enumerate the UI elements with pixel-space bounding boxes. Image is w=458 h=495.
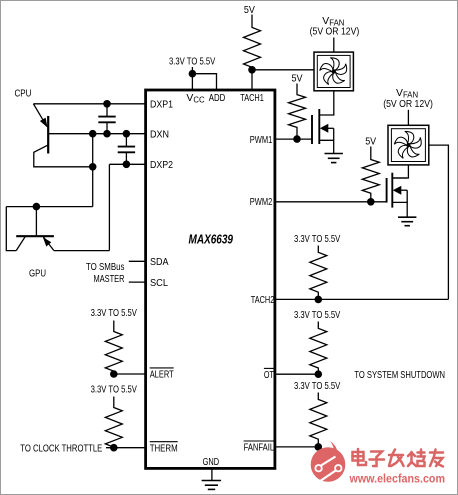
svg-text:GND: GND — [203, 457, 220, 468]
transistor Q4 body arrow — [393, 186, 407, 203]
node junction DXN/C1 — [103, 130, 111, 138]
svg-text:TO SYSTEM SHUTDOWN: TO SYSTEM SHUTDOWN — [354, 370, 445, 381]
svg-text:DXP1: DXP1 — [150, 100, 173, 111]
svg-text:DXN: DXN — [150, 130, 169, 141]
pin label OT (overline) — [264, 368, 274, 381]
capacitor C2 leads — [125, 134, 127, 165]
pin label ALERT (overline) — [150, 368, 174, 381]
transistor Q3 channel bar — [318, 109, 320, 144]
node junction DXP2/C2 — [123, 161, 131, 169]
node junction PWM2 — [367, 198, 375, 206]
transistor Q2 base stub — [35, 207, 37, 237]
wire PWM1 — [275, 138, 312, 140]
char fa — [389, 454, 403, 457]
svg-text:3.3V TO 5.5V: 3.3V TO 5.5V — [91, 385, 137, 396]
fan B1 box — [314, 52, 353, 91]
fan B2 box — [388, 125, 429, 165]
transistor Q4 drain stub — [392, 177, 407, 179]
svg-text:FANFAIL: FANFAIL — [244, 443, 275, 454]
wire TACH1 pin — [251, 70, 253, 90]
wire GPU top horizontal — [6, 206, 92, 208]
wire ADD tie to VCC — [192, 74, 216, 90]
svg-text:ADD: ADD — [209, 93, 226, 104]
wire fan1 to Q3 drain — [319, 91, 334, 115]
node junction ALERT — [110, 370, 118, 378]
node junction collector/DXN drop — [89, 163, 97, 171]
wire GPU emitter rise to DXP2 — [108, 164, 110, 250]
wire DXP1 — [33, 103, 145, 105]
node junction OT — [315, 370, 323, 378]
resistor R PWM1 pull-up — [289, 84, 306, 140]
svg-text:TO CLOCK THROTTLE: TO CLOCK THROTTLE — [20, 444, 102, 455]
resistor R TACH1 pull-up — [244, 15, 261, 70]
svg-text:SCL: SCL — [150, 278, 168, 289]
transistor Q1 CPU sense: emitter diagonal with arrow — [33, 104, 47, 128]
svg-text:TO SMBus: TO SMBus — [86, 262, 125, 273]
svg-text:3.3V TO 5.5V: 3.3V TO 5.5V — [294, 310, 340, 321]
watermark text dianzifashaoyou — [353, 449, 444, 467]
wire fan2 supply lead — [407, 110, 409, 126]
wire PWM2 — [275, 201, 387, 203]
resistor R ALERT pull-up — [105, 321, 122, 375]
svg-text:5V: 5V — [292, 74, 303, 85]
wire fan1 supply lead — [333, 38, 335, 53]
svg-text:OT: OT — [264, 370, 274, 381]
transistor Q3 MOSFET gate bar — [311, 115, 313, 144]
ground (Q3 source) — [325, 154, 343, 163]
wire DXN (Q1 base to pin) — [48, 133, 145, 135]
transistor Q4 channel bar — [391, 173, 393, 208]
wire SCL — [129, 281, 146, 283]
capacitor C2 plates — [118, 147, 135, 153]
label TO SMBus MASTER — [86, 262, 125, 285]
svg-text:SDA: SDA — [150, 257, 169, 268]
wire GPU left drop — [6, 207, 16, 251]
svg-text:TACH2: TACH2 — [251, 295, 275, 306]
svg-text:GPU: GPU — [29, 269, 46, 280]
svg-text:MASTER: MASTER — [94, 274, 125, 285]
char dian — [353, 452, 364, 461]
node junction THERM — [110, 444, 118, 452]
svg-text:3.3V TO 5.5V: 3.3V TO 5.5V — [169, 56, 215, 67]
svg-text:TACH1: TACH1 — [240, 93, 264, 104]
wire TACH1 to FAN1 — [252, 69, 315, 71]
wire TACH2 — [275, 298, 449, 300]
char shao — [410, 452, 413, 462]
wire GPU emitter horizontal — [54, 250, 110, 252]
svg-text:3.3V TO 5.5V: 3.3V TO 5.5V — [294, 381, 340, 392]
svg-text:CPU: CPU — [15, 89, 32, 100]
node junction DXP1/C1 — [103, 100, 111, 108]
transistor Q3 source — [319, 140, 333, 153]
wire fan2 to Q4 drain — [392, 165, 408, 178]
transistor Q2 base bar — [16, 235, 54, 237]
transistor Q1 collector diagonal — [34, 145, 93, 167]
transistor Q3 body arrow — [320, 124, 334, 141]
node junction DXN/C2 — [123, 130, 131, 138]
op-amp U1 MAX6639 IC body — [146, 90, 275, 468]
resistor R FANFAIL pull-up — [310, 393, 327, 447]
wire VCC supply — [191, 67, 193, 90]
resistor R TACH2 pull-up — [310, 246, 327, 300]
ground (GND pin) — [202, 481, 222, 490]
svg-text:www.elecfans.com: www.elecfans.com — [349, 472, 445, 486]
wire GND pin — [211, 469, 213, 481]
svg-text:THERM: THERM — [150, 443, 178, 454]
svg-text:PWM1: PWM1 — [250, 135, 273, 146]
transistor Q4 MOSFET gate bar — [386, 178, 388, 203]
capacitor C1 leads — [106, 104, 108, 134]
resistor R THERM pull-up — [105, 397, 122, 448]
wire SDA — [129, 260, 146, 262]
ground (Q4 source) — [398, 217, 416, 226]
svg-text:DXP2: DXP2 — [150, 160, 173, 171]
wire fan2 to TACH2 drop — [429, 145, 449, 299]
resistor R OT pull-up — [310, 322, 327, 375]
svg-text:3.3V TO 5.5V: 3.3V TO 5.5V — [91, 308, 137, 319]
fan B1 blades — [320, 58, 349, 86]
wire FANFAIL — [275, 446, 318, 448]
wire OT — [275, 373, 318, 375]
capacitor C1 plates — [98, 117, 115, 123]
node junction PWM1 — [293, 135, 301, 143]
svg-text:VCC: VCC — [186, 93, 205, 105]
transistor Q4 source — [392, 202, 407, 217]
svg-text:3.3V TO 5.5V: 3.3V TO 5.5V — [294, 234, 340, 245]
node junction DXN/x92.7 — [89, 130, 97, 138]
pin label THERM (overline) — [150, 442, 178, 455]
watermark logo elecfans circle — [311, 441, 346, 482]
transistor Q1 base bar — [47, 116, 49, 154]
transistor Q2 emitter diagonal with arrow — [43, 237, 54, 251]
svg-text:(5V OR 12V): (5V OR 12V) — [310, 27, 360, 38]
wire ALERT — [114, 373, 146, 375]
node junction VCC/ADD — [189, 70, 197, 78]
fan B2 blades — [394, 131, 423, 159]
node junction TACH1 — [248, 66, 256, 74]
resistor R PWM2 pull-up — [362, 147, 379, 202]
svg-text:5V: 5V — [244, 5, 255, 16]
wire DXP2 — [109, 163, 145, 165]
char zi — [371, 452, 382, 458]
svg-text:MAX6639: MAX6639 — [189, 232, 234, 247]
node junction FANFAIL — [315, 443, 323, 451]
svg-text:PWM2: PWM2 — [250, 197, 273, 208]
svg-text:(5V OR 12V): (5V OR 12V) — [383, 99, 433, 110]
wire DXN drop to GPU — [92, 134, 94, 207]
svg-text:ALERT: ALERT — [150, 370, 174, 381]
svg-text:5V: 5V — [365, 136, 376, 147]
wire THERM — [106, 447, 146, 449]
transistor Q2 GPU sense: collector diagonal — [16, 236, 25, 250]
node junction GPU base — [33, 203, 41, 211]
char you — [430, 451, 443, 454]
pin label FANFAIL (overline) — [244, 441, 275, 454]
node junction TACH2 — [315, 296, 323, 304]
